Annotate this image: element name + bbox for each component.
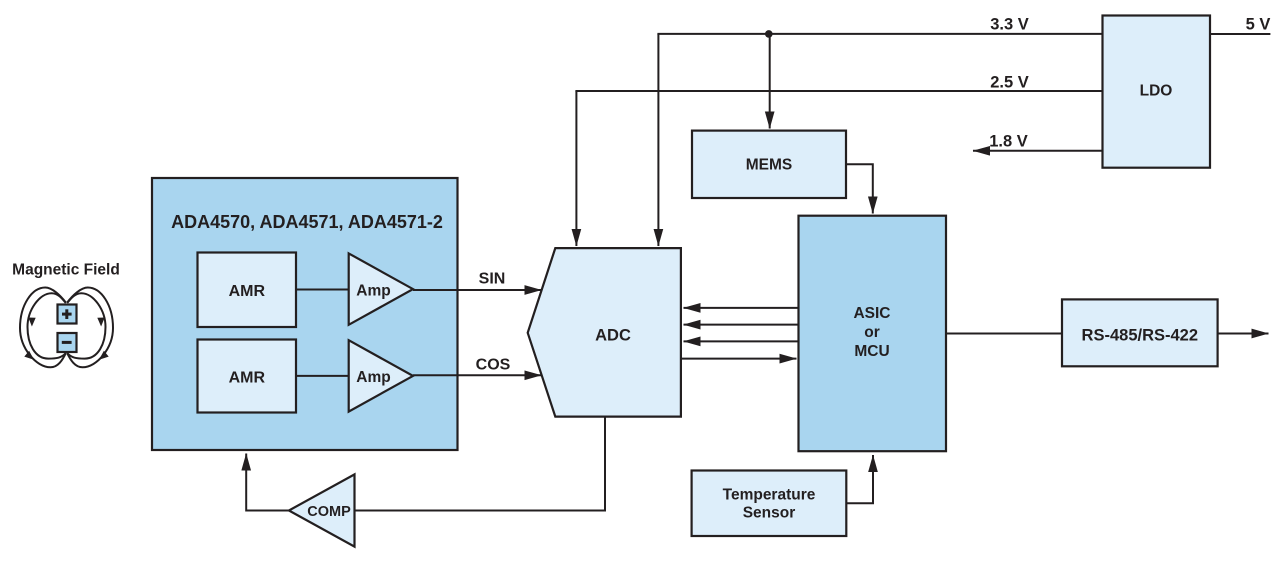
wire ADC to ASIC data (681, 358, 797, 360)
wire ADC to COMP (355, 417, 606, 511)
block ADA4570/ADA4571 container (152, 178, 458, 450)
wire ASIC to ADC data 3 (684, 340, 800, 342)
magnet south pole (-) (58, 333, 77, 352)
svg-text:or: or (864, 324, 880, 341)
svg-text:LDO: LDO (1140, 82, 1173, 99)
ASIC or MCU block (799, 216, 947, 452)
svg-text:ADC: ADC (595, 326, 631, 344)
svg-text:Amp: Amp (356, 369, 390, 386)
AMR box 2 (198, 340, 297, 413)
svg-text:2.5 V: 2.5 V (990, 73, 1029, 91)
wire LDO 1.8V output (973, 150, 1103, 152)
svg-text:Temperature: Temperature (723, 487, 816, 504)
svg-text:MCU: MCU (854, 343, 889, 360)
wire ASIC to ADC data 1 (684, 307, 800, 309)
wire MEMS to ASIC (846, 164, 873, 213)
wire 2.5V rail down to ADC (575, 91, 577, 246)
wire 3.3V rail down to ADC (657, 34, 659, 246)
svg-text:ADA4570, ADA4571, ADA4571-2: ADA4570, ADA4571, ADA4571-2 (171, 212, 443, 232)
wire ASIC to RS-485 (946, 333, 1062, 335)
svg-text:AMR: AMR (229, 370, 266, 387)
MEMS block (692, 131, 846, 198)
svg-text:Magnetic Field: Magnetic Field (12, 262, 120, 279)
wire RS-485 output (1218, 333, 1269, 335)
wire COS Amp2 to ADC (413, 374, 542, 376)
wire AMR1 to Amp1 (296, 289, 349, 291)
LDO block (1103, 16, 1211, 168)
wire junction to MEMS (769, 34, 771, 129)
wire Temperature Sensor to ASIC (846, 455, 873, 503)
svg-text:RS-485/RS-422: RS-485/RS-422 (1082, 326, 1198, 344)
Temperature Sensor block (692, 471, 847, 537)
wire ASIC to ADC data 2 (684, 324, 800, 326)
comparator COMP (289, 474, 355, 546)
svg-text:3.3 V: 3.3 V (990, 16, 1029, 34)
RS-485/RS-422 block (1062, 299, 1218, 366)
svg-text:MEMS: MEMS (746, 157, 793, 174)
svg-text:COMP: COMP (307, 504, 351, 520)
svg-text:1.8 V: 1.8 V (989, 132, 1028, 150)
amp A1 (349, 253, 413, 324)
svg-text:5 V: 5 V (1246, 15, 1271, 33)
wire 2.5V rail (575, 90, 1102, 92)
amp A2 (349, 340, 413, 411)
AMR box 1 (198, 253, 297, 328)
svg-text:ASIC: ASIC (853, 305, 890, 322)
svg-text:AMR: AMR (229, 283, 266, 300)
svg-text:COS: COS (476, 356, 511, 373)
wire SIN Amp1 to ADC (413, 289, 542, 291)
wire 3.3V rail (657, 33, 1102, 35)
ADC block (528, 248, 681, 417)
node junction on 3.3V rail (765, 30, 773, 38)
magnet north pole (+) (58, 305, 77, 324)
svg-text:Sensor: Sensor (743, 505, 796, 522)
wire AMR2 to Amp2 (296, 375, 349, 377)
svg-text:Amp: Amp (356, 283, 390, 300)
magnetic field lines (20, 288, 113, 368)
wire COMP to ADA block (246, 454, 289, 511)
svg-text:SIN: SIN (479, 270, 506, 287)
wire LDO 5V input (1210, 33, 1270, 35)
